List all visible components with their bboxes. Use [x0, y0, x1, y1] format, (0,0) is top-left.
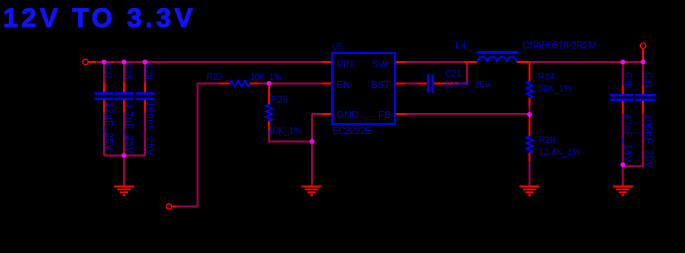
- svg-text:100nF_25V: 100nF_25V: [642, 114, 653, 168]
- enable port stub: [172, 206, 177, 208]
- wire C30 top: [622, 62, 624, 86]
- resistor R28 zigzag: [527, 136, 533, 153]
- svg-text:R28: R28: [539, 135, 556, 145]
- wire enable port to R23: [177, 84, 220, 207]
- wire input caps bottom rail: [104, 155, 145, 157]
- svg-text:10K_1%: 10K_1%: [268, 126, 302, 136]
- wire 12V top rail: [97, 62, 643, 207]
- svg-text:12V TO 3.3V: 12V TO 3.3V: [3, 3, 196, 33]
- resistor R24 zigzag: [527, 81, 533, 98]
- pin VIN stub: [322, 61, 332, 63]
- capacitor C30 pins: [622, 86, 624, 95]
- capacitor C31 pins: [642, 86, 644, 95]
- wire C29 top: [144, 62, 146, 83]
- svg-text:56K_1%: 56K_1%: [538, 84, 572, 94]
- wire R23 to EN: [259, 83, 323, 85]
- wire C31 top: [642, 62, 644, 86]
- wire FB pin to divider: [405, 113, 530, 115]
- svg-text:EN: EN: [337, 80, 351, 91]
- resistor R23 zigzag: [230, 81, 251, 87]
- svg-text:L4: L4: [455, 41, 467, 52]
- inductor L4 pins: [464, 61, 478, 63]
- svg-text:47uF_16V: 47uF_16V: [622, 114, 633, 163]
- svg-text:C21: C21: [445, 69, 462, 79]
- node output gnd: [620, 162, 625, 167]
- svg-text:C27: C27: [103, 63, 113, 80]
- svg-text:C31: C31: [644, 72, 654, 89]
- svg-text:SW: SW: [372, 60, 389, 71]
- inductor L4 bar: [475, 51, 520, 54]
- svg-text:C29: C29: [144, 63, 154, 80]
- pin FB stub: [395, 113, 405, 115]
- capacitor C27 plates: [95, 93, 114, 99]
- wire 3V3 output rail: [530, 61, 644, 63]
- node FB: [527, 112, 532, 117]
- wire gnd node to GND pin: [312, 113, 322, 115]
- capacitor C21 pins: [418, 83, 427, 85]
- wire C31 bottom: [623, 114, 643, 167]
- svg-text:C28: C28: [123, 63, 133, 80]
- capacitor C28 plates: [115, 93, 134, 99]
- ground R28: [520, 186, 540, 195]
- svg-text:R24: R24: [538, 72, 555, 82]
- node C30 top: [620, 60, 625, 65]
- port enable input: [166, 204, 171, 209]
- pin GND stub: [322, 113, 332, 115]
- wire C27 bottom: [103, 113, 105, 156]
- node gnd net: [310, 139, 315, 144]
- capacitor C31 plates: [635, 95, 655, 100]
- node C28 top: [122, 60, 127, 65]
- svg-text:BST: BST: [371, 80, 390, 91]
- ground output caps: [613, 186, 633, 195]
- svg-text:VIN: VIN: [337, 60, 354, 71]
- node EN divider: [267, 81, 272, 86]
- node input caps gnd: [122, 153, 127, 158]
- resistor R26 zigzag: [266, 105, 272, 122]
- svg-text:4.7uF_25V: 4.7uF_25V: [123, 103, 134, 155]
- svg-text:R26: R26: [271, 95, 288, 105]
- svg-text:GND: GND: [337, 110, 359, 121]
- capacitor C29 plates: [136, 93, 155, 99]
- wire SW to L4: [405, 61, 464, 63]
- wire C30 bottom to ground: [622, 114, 624, 187]
- svg-text:U5: U5: [332, 41, 343, 51]
- wire R28 to ground: [529, 161, 531, 186]
- capacitor C21 plates: [428, 74, 432, 93]
- resistor R26 pins: [268, 86, 270, 105]
- port 3V3 output: [640, 43, 645, 48]
- svg-text:12.4K_1%: 12.4K_1%: [539, 147, 581, 157]
- resistor R28 pins: [529, 116, 531, 136]
- IC U5 body: [332, 53, 395, 124]
- wire C21 to SW node: [459, 62, 468, 84]
- pin stubs (red): [88, 49, 643, 207]
- inductor L4 coil: [478, 57, 517, 62]
- svg-text:100nF_25V: 100nF_25V: [444, 80, 491, 90]
- capacitor C29 pins: [144, 83, 146, 93]
- resistor R24 pins: [529, 62, 531, 81]
- pin SW stub: [395, 61, 405, 63]
- svg-text:C30: C30: [624, 72, 634, 89]
- svg-text:CSAB0518-2R2M: CSAB0518-2R2M: [522, 41, 596, 52]
- svg-text:R23: R23: [207, 72, 224, 82]
- output port stub: [642, 49, 644, 62]
- pin EN stub: [322, 83, 332, 85]
- wire C27 top: [103, 62, 105, 83]
- ground input caps: [114, 186, 134, 195]
- port 12V input: [83, 59, 88, 64]
- input port stub: [88, 61, 96, 63]
- wire C28 bottom: [123, 113, 125, 156]
- capacitor C28 pins: [123, 83, 125, 93]
- node C27 top: [102, 60, 107, 65]
- pin BST stub: [395, 83, 405, 85]
- wire R24 to FB node: [529, 107, 531, 115]
- node C29 top: [143, 60, 148, 65]
- wire BST to C21: [405, 83, 418, 85]
- svg-text:100nF_25V: 100nF_25V: [144, 102, 155, 156]
- capacitor C27 pins: [103, 83, 105, 93]
- ground IC GND: [302, 186, 322, 195]
- wire R26 bottom to gnd node: [269, 130, 312, 142]
- wire C28 top: [123, 62, 125, 83]
- wire gnd node vertical: [311, 114, 313, 186]
- wire C29 bottom: [144, 113, 146, 156]
- svg-text:22uF_25V: 22uF_25V: [103, 103, 114, 152]
- capacitor C30 plates: [610, 95, 633, 100]
- svg-text:EC2232E: EC2232E: [332, 126, 372, 137]
- svg-text:FB: FB: [378, 110, 391, 121]
- svg-text:10K_1%: 10K_1%: [250, 72, 282, 82]
- wire to input ground: [123, 156, 125, 187]
- node C31 top: [641, 60, 646, 65]
- resistor R23 pins: [219, 83, 230, 85]
